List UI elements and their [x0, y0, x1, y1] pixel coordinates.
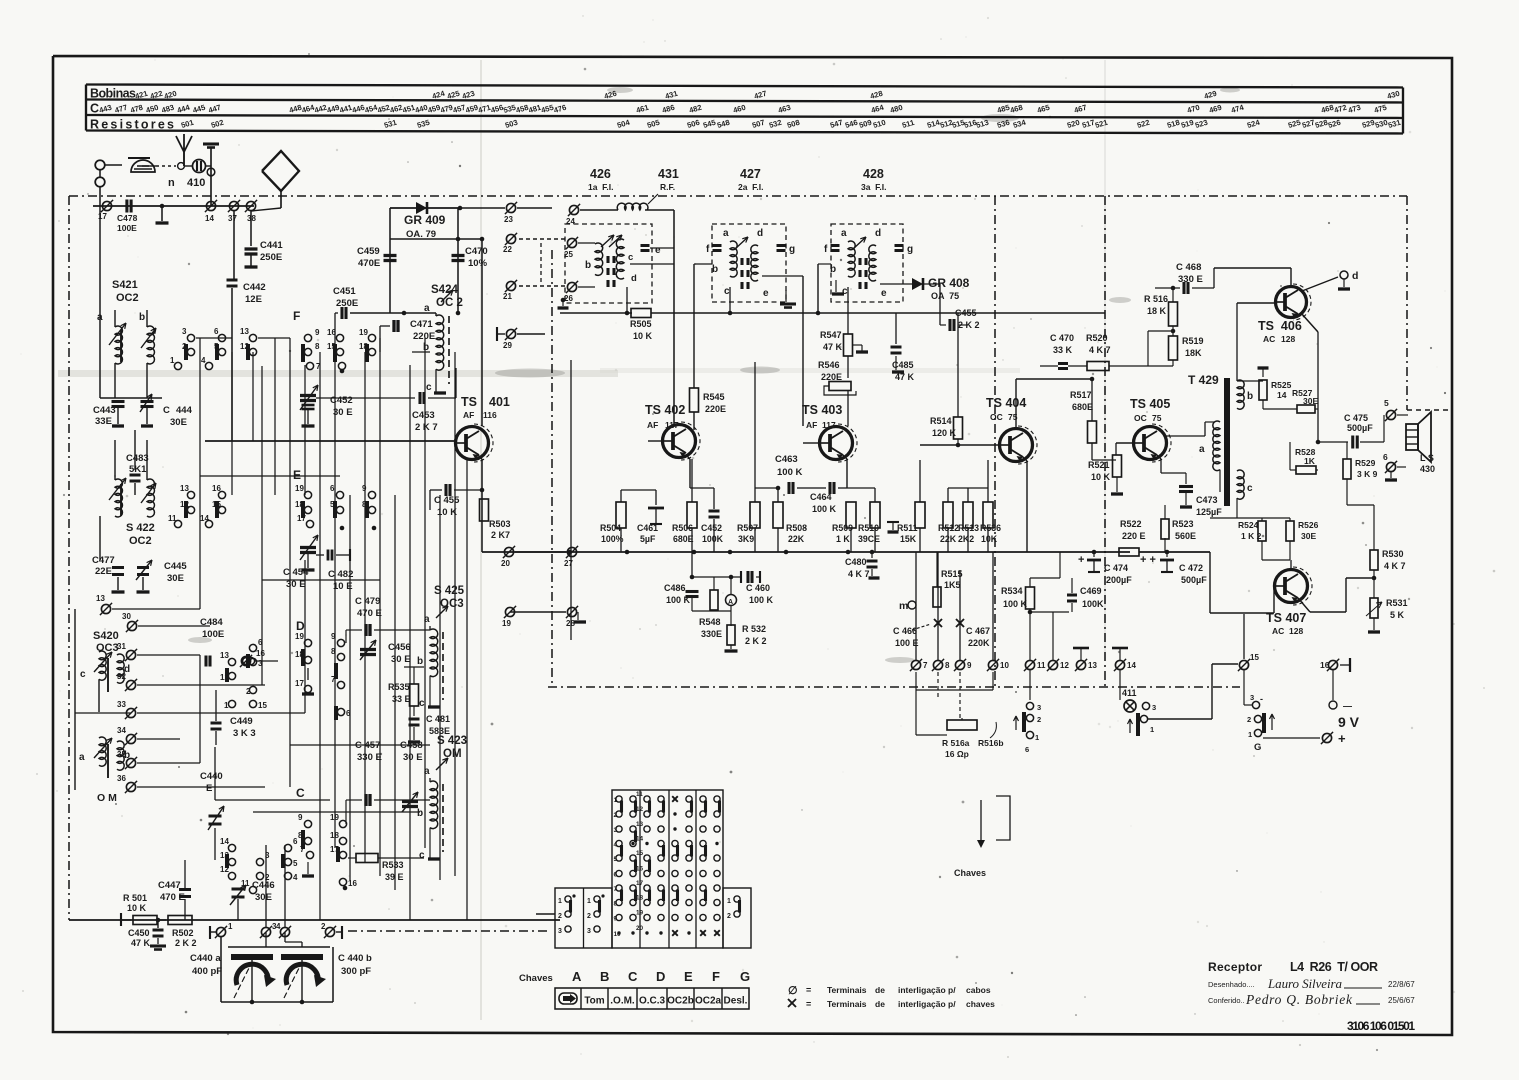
- svg-text:R506: R506: [672, 523, 693, 533]
- svg-text:36: 36: [117, 774, 126, 783]
- svg-text:3106 106 01501: 3106 106 01501: [1347, 1019, 1415, 1033]
- svg-text:100 K: 100 K: [749, 595, 774, 605]
- svg-text:1: 1: [1035, 733, 1039, 742]
- svg-text:15: 15: [1250, 653, 1259, 662]
- svg-text:R548: R548: [699, 617, 721, 627]
- svg-text:15: 15: [636, 850, 644, 857]
- svg-text:1: 1: [224, 701, 229, 710]
- svg-text:680E: 680E: [1072, 402, 1093, 412]
- svg-text:interligação: interligação: [898, 999, 946, 1009]
- svg-text:6: 6: [330, 484, 335, 493]
- svg-text:C470: C470: [465, 246, 488, 257]
- svg-text:TS 404: TS 404: [986, 396, 1026, 410]
- svg-text:S 425: S 425: [434, 585, 465, 597]
- svg-text:5: 5: [293, 859, 298, 868]
- svg-text:2: 2: [587, 913, 591, 920]
- svg-text:410: 410: [187, 177, 205, 189]
- svg-text:Terminais: Terminais: [827, 985, 867, 995]
- svg-text:100E: 100E: [202, 629, 224, 640]
- svg-text:GR 408: GR 408: [928, 276, 970, 290]
- svg-text:b: b: [417, 808, 423, 819]
- svg-text:117: 117: [822, 420, 836, 430]
- svg-text:10 K: 10 K: [633, 331, 653, 341]
- svg-text:500µF: 500µF: [1347, 423, 1373, 433]
- svg-text:500µF: 500µF: [1181, 575, 1207, 585]
- svg-text:c: c: [724, 286, 730, 297]
- svg-text:de: de: [875, 999, 885, 1009]
- svg-text:C 467: C 467: [966, 626, 990, 636]
- svg-text:17: 17: [636, 880, 644, 887]
- svg-text:19: 19: [295, 632, 304, 641]
- svg-text:D: D: [656, 969, 665, 984]
- svg-text:100 K: 100 K: [777, 467, 802, 478]
- svg-text:C 454: C 454: [283, 567, 309, 578]
- svg-text:13: 13: [96, 594, 105, 603]
- svg-text:OC2a: OC2a: [695, 996, 722, 1007]
- svg-text:10 E: 10 E: [333, 581, 353, 592]
- svg-text:3: 3: [182, 327, 187, 336]
- svg-text:3: 3: [558, 928, 562, 935]
- svg-text:OC2: OC2: [129, 535, 152, 547]
- svg-text:444: 444: [176, 405, 193, 416]
- svg-text:C486: C486: [664, 583, 686, 593]
- svg-text:b: b: [830, 264, 836, 275]
- svg-text:39 E: 39 E: [385, 872, 404, 882]
- svg-text:C 472: C 472: [1179, 563, 1203, 573]
- svg-text:100K: 100K: [1082, 599, 1104, 609]
- svg-text:chaves: chaves: [966, 999, 995, 1009]
- svg-text:p/: p/: [948, 999, 956, 1009]
- svg-text:OC: OC: [1134, 413, 1147, 423]
- svg-text:3 K 3: 3 K 3: [233, 728, 256, 739]
- svg-text:Pedro Q. Bobriek: Pedro Q. Bobriek: [1245, 992, 1353, 1007]
- svg-text:431: 431: [658, 167, 679, 181]
- svg-text:C463: C463: [775, 454, 798, 465]
- svg-text:C 481: C 481: [426, 714, 450, 724]
- svg-text:TS 405: TS 405: [1130, 397, 1170, 411]
- svg-text:C453: C453: [412, 410, 435, 421]
- svg-text:R511: R511: [897, 523, 918, 533]
- svg-text:TS 406: TS 406: [1258, 319, 1302, 333]
- svg-text:C477: C477: [92, 555, 115, 566]
- svg-text:19: 19: [359, 328, 368, 337]
- svg-text:C473: C473: [1196, 495, 1218, 505]
- svg-text:18 K: 18 K: [1147, 306, 1167, 316]
- svg-text:13: 13: [240, 327, 249, 336]
- svg-text:26: 26: [564, 294, 573, 303]
- svg-text:39CE: 39CE: [858, 534, 880, 544]
- svg-text:Terminais: Terminais: [827, 999, 867, 1009]
- svg-text:2 K 2: 2 K 2: [175, 938, 197, 948]
- svg-text:R502: R502: [172, 928, 194, 938]
- svg-text:1: 1: [228, 922, 233, 931]
- svg-text:R504: R504: [600, 523, 621, 533]
- svg-text:1: 1: [558, 898, 562, 905]
- svg-text:30E: 30E: [255, 892, 272, 903]
- svg-text:e: e: [655, 245, 661, 256]
- svg-text:Conferido..: Conferido..: [1208, 996, 1245, 1005]
- svg-text:100 K: 100 K: [812, 504, 837, 514]
- svg-text:C443: C443: [93, 405, 116, 416]
- svg-text:R520: R520: [1086, 333, 1108, 343]
- svg-text:c: c: [628, 252, 633, 263]
- svg-text:R530: R530: [1382, 549, 1404, 559]
- svg-text:E: E: [684, 969, 693, 984]
- svg-text:b: b: [585, 260, 591, 271]
- svg-text:30E: 30E: [170, 417, 187, 428]
- svg-text:∅: ∅: [788, 985, 798, 997]
- svg-text:c: c: [80, 669, 86, 680]
- svg-text:33 K: 33 K: [1053, 345, 1073, 355]
- svg-text:R546: R546: [818, 360, 840, 370]
- svg-text:117: 117: [665, 420, 679, 430]
- svg-text:30 E: 30 E: [286, 579, 306, 590]
- svg-text:L S: L S: [1420, 453, 1434, 463]
- svg-text:R507: R507: [737, 523, 758, 533]
- svg-text:C478: C478: [117, 213, 138, 223]
- svg-text:OC: OC: [990, 412, 1003, 422]
- svg-text:m: m: [899, 600, 908, 612]
- svg-text:C445: C445: [164, 561, 187, 572]
- svg-text:10 K: 10 K: [437, 507, 457, 518]
- svg-text:C458: C458: [400, 740, 423, 751]
- svg-text:3: 3: [1250, 693, 1254, 702]
- svg-text:128: 128: [1281, 334, 1295, 344]
- svg-text:b: b: [712, 264, 718, 275]
- svg-text:33: 33: [117, 700, 126, 709]
- svg-text:C 466: C 466: [893, 626, 917, 636]
- svg-text:116: 116: [483, 410, 497, 420]
- svg-text:220E: 220E: [413, 331, 435, 342]
- svg-text:A: A: [728, 599, 733, 606]
- svg-text:1 K: 1 K: [836, 534, 850, 544]
- svg-text:11: 11: [168, 514, 177, 523]
- svg-text:3 K 9: 3 K 9: [1357, 469, 1378, 479]
- svg-text:680E: 680E: [673, 534, 694, 544]
- svg-text:1 K 2: 1 K 2: [1241, 531, 1262, 541]
- svg-text:30 E: 30 E: [333, 407, 353, 418]
- svg-text:14: 14: [1277, 390, 1287, 400]
- svg-text:9: 9: [315, 328, 320, 337]
- svg-text:C440: C440: [200, 771, 223, 782]
- svg-text:Desenhado....: Desenhado....: [1208, 980, 1255, 989]
- svg-text:19: 19: [502, 619, 511, 628]
- svg-text:18: 18: [636, 895, 644, 902]
- svg-text:p/: p/: [948, 985, 956, 995]
- svg-text:a: a: [723, 228, 729, 239]
- svg-text:R 532: R 532: [742, 624, 766, 634]
- svg-text:TS: TS: [461, 395, 477, 409]
- svg-text:250E: 250E: [260, 252, 282, 263]
- svg-text:b: b: [1247, 391, 1253, 402]
- svg-text:330 E: 330 E: [357, 752, 382, 763]
- svg-text:427: 427: [740, 167, 761, 181]
- svg-text:6: 6: [214, 327, 219, 336]
- svg-text:=: =: [806, 985, 811, 995]
- svg-text:C442: C442: [243, 282, 266, 293]
- svg-text:411: 411: [1122, 688, 1137, 698]
- svg-text:cabos: cabos: [966, 985, 991, 995]
- svg-text:16: 16: [212, 484, 221, 493]
- svg-text:AF: AF: [463, 410, 474, 420]
- svg-text:125µF: 125µF: [1196, 507, 1222, 517]
- svg-text:+: +: [1078, 554, 1084, 566]
- svg-text:C485: C485: [892, 360, 914, 370]
- svg-text:13: 13: [180, 484, 189, 493]
- svg-text:Bobinas: Bobinas: [90, 87, 136, 101]
- svg-text:22: 22: [503, 245, 512, 254]
- svg-text:10: 10: [1000, 661, 1009, 670]
- svg-text:11: 11: [636, 791, 643, 798]
- svg-text:20: 20: [501, 559, 510, 568]
- svg-text:O M: O M: [97, 792, 117, 804]
- svg-text:30E: 30E: [167, 573, 184, 584]
- svg-text:R534: R534: [1001, 586, 1023, 596]
- svg-text:12E: 12E: [245, 294, 262, 305]
- svg-text:interligação: interligação: [898, 985, 946, 995]
- svg-text:G: G: [565, 997, 570, 1003]
- svg-text:330E: 330E: [701, 629, 722, 639]
- svg-text:1: 1: [1150, 725, 1154, 734]
- svg-text:C484: C484: [200, 617, 223, 628]
- svg-text:22/8/67: 22/8/67: [1388, 980, 1415, 989]
- svg-text:430: 430: [1420, 464, 1435, 474]
- svg-text:F: F: [712, 969, 720, 984]
- svg-text:300 pF: 300 pF: [341, 966, 371, 977]
- svg-text:428: 428: [863, 167, 884, 181]
- svg-text:OA 75: OA 75: [931, 291, 959, 301]
- svg-text:5 K: 5 K: [1390, 610, 1405, 620]
- svg-text:R519: R519: [1182, 336, 1204, 346]
- svg-text:19: 19: [295, 484, 304, 493]
- svg-text:a: a: [841, 228, 847, 239]
- svg-text:e: e: [763, 288, 769, 299]
- svg-text:13: 13: [636, 821, 644, 828]
- svg-text:d: d: [757, 228, 763, 239]
- svg-text:R526: R526: [1298, 520, 1319, 530]
- svg-text:470E: 470E: [358, 258, 380, 269]
- svg-text:5K1: 5K1: [129, 464, 147, 475]
- svg-text:C440 a: C440 a: [190, 953, 221, 964]
- svg-text:4 K 7: 4 K 7: [848, 569, 870, 579]
- svg-text:25/6/67: 25/6/67: [1388, 996, 1415, 1005]
- svg-text:R517: R517: [1070, 390, 1092, 400]
- svg-text:c: c: [1247, 483, 1253, 494]
- svg-text:19: 19: [330, 813, 339, 822]
- svg-text:O.C.3: O.C.3: [639, 996, 666, 1007]
- svg-text:16: 16: [256, 649, 265, 658]
- svg-text:2 K 2: 2 K 2: [745, 636, 767, 646]
- svg-text:AC: AC: [1263, 334, 1275, 344]
- svg-text:220K: 220K: [968, 638, 990, 648]
- svg-text:47 K: 47 K: [131, 938, 151, 948]
- svg-text:R.F.: R.F.: [660, 182, 675, 192]
- svg-text:R503: R503: [489, 519, 511, 529]
- svg-text:6: 6: [346, 709, 351, 718]
- svg-text:TS 402: TS 402: [645, 403, 685, 417]
- svg-text:14: 14: [205, 214, 214, 223]
- svg-text:C: C: [628, 969, 638, 984]
- svg-text:R547: R547: [820, 330, 842, 340]
- svg-text:12: 12: [636, 806, 644, 813]
- svg-text:120 K: 120 K: [932, 428, 957, 438]
- svg-text:R513: R513: [958, 523, 979, 533]
- svg-text:L4 R26 T/ OOR: L4 R26 T/ OOR: [1290, 960, 1378, 974]
- svg-text:1a F.I.: 1a F.I.: [588, 182, 614, 192]
- svg-text:32: 32: [117, 672, 126, 681]
- svg-text:7: 7: [923, 661, 928, 670]
- svg-text:220 E: 220 E: [1122, 531, 1146, 541]
- svg-text:47 K: 47 K: [823, 342, 843, 352]
- svg-text:30: 30: [122, 612, 131, 621]
- svg-text:1K5: 1K5: [944, 580, 961, 590]
- svg-text:C 482: C 482: [328, 569, 353, 580]
- svg-text:S424: S424: [431, 284, 458, 296]
- svg-text:R505: R505: [630, 319, 652, 329]
- svg-text:9: 9: [362, 484, 367, 493]
- svg-text:R 501: R 501: [123, 893, 147, 903]
- svg-text:C 457: C 457: [355, 740, 380, 751]
- svg-text:+ +: + +: [1140, 554, 1156, 566]
- svg-text:S 422: S 422: [126, 522, 155, 534]
- svg-text:C450: C450: [128, 928, 150, 938]
- svg-text:Chaves: Chaves: [954, 868, 986, 878]
- svg-text:c: c: [426, 382, 432, 393]
- svg-text:R516b: R516b: [978, 738, 1004, 748]
- svg-text:b: b: [139, 312, 145, 323]
- svg-text:100K: 100K: [702, 534, 724, 544]
- svg-text:Resistores: Resistores: [90, 118, 174, 132]
- svg-text:13: 13: [1088, 661, 1097, 670]
- svg-text:9 V: 9 V: [1338, 714, 1360, 730]
- svg-text:2: 2: [727, 913, 731, 920]
- svg-text:OC2b: OC2b: [667, 996, 694, 1007]
- svg-text:11: 11: [1037, 661, 1046, 670]
- svg-text:33 E: 33 E: [392, 694, 411, 704]
- svg-text:de: de: [875, 985, 885, 995]
- svg-text:E: E: [206, 783, 212, 794]
- svg-text:C452: C452: [701, 523, 722, 533]
- svg-text:15K: 15K: [900, 534, 917, 544]
- svg-text:R521: R521: [1088, 460, 1110, 470]
- svg-text:a: a: [424, 766, 430, 777]
- svg-text:R535: R535: [388, 682, 410, 692]
- svg-text:d: d: [875, 228, 881, 239]
- svg-text:C 479: C 479: [355, 596, 380, 607]
- svg-text:1: 1: [1248, 730, 1252, 739]
- svg-text:6: 6: [1025, 745, 1029, 754]
- svg-text:g: g: [907, 244, 913, 255]
- svg-text:19: 19: [636, 910, 644, 917]
- svg-text:Receptor: Receptor: [1208, 960, 1262, 974]
- svg-text:4: 4: [293, 873, 298, 882]
- svg-text:G: G: [1254, 742, 1261, 753]
- svg-text:1K: 1K: [1304, 456, 1316, 466]
- svg-text:c: c: [419, 698, 425, 709]
- svg-text:C456: C456: [388, 642, 411, 653]
- svg-text:3: 3: [1037, 703, 1041, 712]
- svg-text:5µF: 5µF: [640, 534, 656, 544]
- svg-text:R531: R531: [1386, 598, 1408, 608]
- svg-text:C 440 b: C 440 b: [338, 953, 372, 964]
- svg-text:470 E: 470 E: [357, 608, 382, 619]
- svg-text:3: 3: [1152, 703, 1156, 712]
- svg-text:2K2: 2K2: [958, 534, 974, 544]
- svg-text:20: 20: [636, 925, 644, 932]
- svg-text:C459: C459: [357, 246, 380, 257]
- svg-text:9: 9: [331, 632, 336, 641]
- svg-text:TS 403: TS 403: [802, 403, 842, 417]
- svg-text:29: 29: [503, 341, 512, 350]
- svg-text:100 K: 100 K: [666, 595, 691, 605]
- svg-text:Lauro Silveira: Lauro Silveira: [1267, 976, 1343, 991]
- svg-text:16: 16: [636, 866, 644, 873]
- svg-text:S420: S420: [93, 630, 119, 642]
- svg-text:F: F: [293, 309, 300, 323]
- svg-text:2: 2: [1037, 715, 1041, 724]
- svg-text:14: 14: [636, 836, 644, 843]
- svg-text:OC2: OC2: [116, 292, 139, 304]
- svg-text:A: A: [572, 969, 582, 984]
- svg-text:400 pF: 400 pF: [192, 966, 222, 977]
- svg-text:3K9: 3K9: [738, 534, 754, 544]
- svg-text:18K: 18K: [1185, 348, 1202, 358]
- svg-text:G: G: [740, 969, 750, 984]
- svg-text:Chaves: Chaves: [519, 973, 553, 984]
- svg-text:426: 426: [590, 167, 611, 181]
- svg-text:R533: R533: [382, 860, 404, 870]
- svg-text:C451: C451: [333, 286, 356, 297]
- svg-text:1: 1: [727, 898, 731, 905]
- svg-text:2a F.I.: 2a F.I.: [738, 182, 764, 192]
- svg-text:10K: 10K: [981, 534, 998, 544]
- svg-text:2: 2: [558, 913, 562, 920]
- svg-text:C464: C464: [810, 492, 832, 502]
- svg-text:.O.M.: .O.M.: [610, 996, 635, 1007]
- svg-text:27: 27: [564, 559, 573, 568]
- svg-text:31: 31: [117, 642, 126, 651]
- svg-text:4 K 7: 4 K 7: [1384, 561, 1406, 571]
- svg-text:R514: R514: [930, 416, 952, 426]
- svg-text:2: 2: [321, 922, 326, 931]
- svg-text:C 475: C 475: [1344, 413, 1368, 423]
- svg-text:14: 14: [1127, 661, 1136, 670]
- svg-text:C452: C452: [330, 395, 353, 406]
- svg-text:R515: R515: [941, 569, 963, 579]
- svg-text:560E: 560E: [1175, 531, 1196, 541]
- svg-text:75: 75: [1152, 413, 1162, 423]
- svg-text:C447: C447: [158, 880, 181, 891]
- svg-text:C471: C471: [410, 319, 433, 330]
- svg-text:C449: C449: [230, 716, 253, 727]
- svg-text:100 K: 100 K: [1003, 599, 1028, 609]
- svg-text:47 K: 47 K: [895, 372, 915, 382]
- svg-text:8: 8: [331, 647, 336, 656]
- svg-text:3: 3: [587, 928, 591, 935]
- svg-text:—: —: [1343, 701, 1352, 711]
- svg-text:C 460: C 460: [746, 583, 770, 593]
- svg-text:AC 128: AC 128: [1272, 626, 1303, 636]
- svg-text:C441: C441: [260, 240, 283, 251]
- svg-text:401: 401: [489, 395, 510, 409]
- svg-text:9: 9: [298, 813, 303, 822]
- svg-text:14: 14: [200, 514, 209, 523]
- svg-text:200µF: 200µF: [1106, 575, 1132, 585]
- svg-text:220E: 220E: [821, 372, 842, 382]
- svg-text:g: g: [789, 244, 795, 255]
- svg-text:22E: 22E: [95, 566, 112, 577]
- svg-text:Tom: Tom: [584, 996, 604, 1007]
